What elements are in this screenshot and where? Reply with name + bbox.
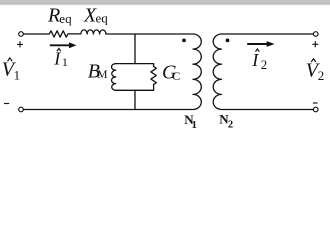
svg-text:eq: eq: [96, 11, 109, 26]
svg-text:M: M: [97, 69, 107, 81]
svg-text:I: I: [53, 49, 61, 69]
svg-text:2: 2: [261, 57, 268, 72]
svg-text:1: 1: [192, 120, 197, 131]
svg-text:I: I: [251, 50, 259, 70]
svg-text:C: C: [172, 69, 180, 83]
svg-text:1: 1: [62, 55, 68, 69]
svg-text:2: 2: [318, 68, 325, 83]
svg-text:eq: eq: [59, 11, 72, 26]
svg-text:1: 1: [14, 68, 21, 83]
svg-text:R: R: [47, 5, 60, 27]
svg-text:2: 2: [228, 120, 233, 131]
